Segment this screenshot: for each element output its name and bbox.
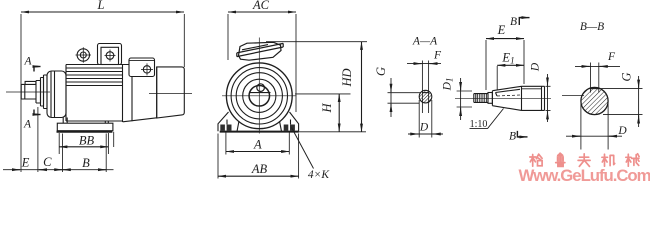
eyebolt xyxy=(76,47,92,62)
bearing cap xyxy=(44,75,48,109)
terminal box 1 xyxy=(98,44,122,65)
svg-text:AB: AB xyxy=(251,162,268,176)
right foot front xyxy=(280,112,299,131)
svg-text:G: G xyxy=(374,67,388,76)
dimension AB extensions xyxy=(218,134,299,179)
body cooling fins xyxy=(66,68,123,86)
thread hatch xyxy=(478,94,487,103)
body joint line xyxy=(122,65,124,123)
extension line foot left xyxy=(62,134,64,173)
dimension AC line xyxy=(228,11,296,13)
arrow B left xyxy=(63,169,71,171)
D extension lines A-A xyxy=(419,100,432,138)
4xK leader xyxy=(292,128,314,169)
A-A keyway extension lines xyxy=(422,61,428,114)
extension line shaft shoulder xyxy=(37,107,39,172)
arrow B right xyxy=(98,169,106,171)
svg-text:L: L xyxy=(97,0,105,12)
D cone extension lines xyxy=(546,86,551,110)
hub circle xyxy=(243,79,276,112)
foot base plate xyxy=(57,123,113,131)
dimension D1 line xyxy=(460,78,462,120)
left foot front xyxy=(218,112,239,131)
svg-text:B: B xyxy=(509,131,516,143)
fan cover joint xyxy=(156,67,158,118)
shaft centerline xyxy=(6,91,50,93)
right foot hole K xyxy=(284,125,295,131)
svg-text:A: A xyxy=(253,137,262,151)
dimension D line A-A xyxy=(408,133,443,135)
motor body outline xyxy=(66,65,129,122)
char ge (tree+each) xyxy=(530,154,542,166)
svg-text:D1: D1 xyxy=(442,78,455,92)
svg-text:D: D xyxy=(617,125,627,137)
B-B keyway flat xyxy=(590,88,600,90)
D extension lines B-B xyxy=(581,103,608,150)
circle ring 3 xyxy=(236,73,282,119)
G arrows B-B xyxy=(638,81,640,88)
arrow at E right outside xyxy=(39,169,47,171)
dimension L line xyxy=(21,11,184,13)
D arrows B-B xyxy=(573,135,581,137)
dimension L extension line right xyxy=(183,14,185,67)
section B mark bottom xyxy=(517,131,527,137)
terminal box 2 xyxy=(129,58,155,77)
svg-text:HD: HD xyxy=(340,68,354,87)
D arrows A-A xyxy=(411,133,418,135)
taper underline xyxy=(470,128,488,130)
dimension E1 line xyxy=(497,64,524,66)
svg-text:H: H xyxy=(320,103,334,114)
svg-text:A: A xyxy=(23,56,32,68)
front view horizontal centerline xyxy=(222,95,297,97)
D1 arrows xyxy=(460,84,462,91)
char xie (apparatus) xyxy=(626,154,639,166)
dimension AC extension right xyxy=(295,14,297,112)
base plate bottom thick edge xyxy=(57,131,113,133)
terminal box front outline xyxy=(239,42,282,60)
svg-text:BB: BB xyxy=(79,134,95,148)
dimension E line xyxy=(486,38,524,40)
D1 extension lines xyxy=(457,91,472,107)
small top circle xyxy=(257,84,265,92)
dimension AC extension left xyxy=(227,14,229,60)
svg-text:C: C xyxy=(43,155,52,169)
keyway chord xyxy=(250,92,271,94)
svg-text:A—A: A—A xyxy=(412,36,438,48)
end bell flange lines xyxy=(51,72,55,118)
HD top extension line xyxy=(266,41,367,43)
A-A shaft section circle xyxy=(419,90,432,103)
section A cut mark top xyxy=(34,67,41,72)
svg-text:Www.GeLufu.Com: Www.GeLufu.Com xyxy=(519,166,650,185)
dimension HD line xyxy=(361,42,363,132)
G extension lines B-B xyxy=(597,89,643,115)
svg-text:E: E xyxy=(497,23,506,37)
left foot web xyxy=(63,118,67,124)
B-B keyway extension lines xyxy=(591,63,599,93)
section A cut mark bottom xyxy=(34,110,41,115)
cone outline xyxy=(492,86,521,110)
motor shaft xyxy=(21,84,36,99)
svg-text:D: D xyxy=(530,62,542,72)
dimension F line B-B xyxy=(575,65,620,67)
E extension lines xyxy=(486,40,524,90)
circle ring 2 xyxy=(231,68,287,124)
left foot hole K xyxy=(220,125,231,131)
E1 extension line xyxy=(496,66,498,90)
terminal box inner line xyxy=(242,45,268,50)
A-A keyway flat xyxy=(422,92,429,94)
svg-text:E1: E1 xyxy=(501,51,514,66)
G extension lines A-A xyxy=(388,93,422,104)
keyseat line on cylinder xyxy=(522,88,542,90)
svg-text:B: B xyxy=(510,16,517,28)
rear joint line xyxy=(131,77,133,122)
front end bell xyxy=(47,71,66,118)
shaft detail centerline xyxy=(455,97,551,99)
svg-text:AC: AC xyxy=(252,0,270,12)
ground baseline extension xyxy=(299,131,366,133)
rear taper bottom xyxy=(123,118,157,122)
terminal box slanted bar xyxy=(237,43,283,56)
F arrows A-A xyxy=(414,63,422,65)
shaft collar step 2 xyxy=(41,78,44,107)
dimension F line A-A xyxy=(407,63,441,65)
shaft collar step 1 xyxy=(36,81,41,104)
B-B section circle xyxy=(581,87,608,114)
dimension AB line xyxy=(218,175,299,177)
B-B centerline tick xyxy=(562,95,584,97)
fan cover xyxy=(157,67,185,118)
char lu (fish+sun) xyxy=(556,153,565,166)
H top extension xyxy=(295,93,351,95)
svg-text:F: F xyxy=(433,50,442,62)
svg-text:F: F xyxy=(607,51,616,63)
dimension E C B line xyxy=(3,169,114,171)
F arrows B-B xyxy=(582,65,590,67)
taper leader xyxy=(488,109,504,129)
dimension H line xyxy=(338,94,340,132)
arrow at E left xyxy=(12,169,20,171)
frame outer circle xyxy=(226,63,292,129)
shaft hole circle xyxy=(249,86,270,107)
shaft key xyxy=(25,81,36,84)
dimension BB extension lines xyxy=(59,133,108,154)
watermark chinese characters (hand-drawn strokes) xyxy=(530,153,639,166)
dimension D line B-B xyxy=(566,135,622,137)
dimension A line xyxy=(226,151,289,153)
arrow C right xyxy=(54,169,62,171)
G arrows A-A xyxy=(390,85,392,92)
plate corner line xyxy=(113,132,115,147)
svg-text:E: E xyxy=(21,156,30,170)
shaft big cylinder xyxy=(522,86,545,110)
svg-text:A: A xyxy=(23,119,32,131)
right foot web xyxy=(105,121,108,124)
dimension G line A-A xyxy=(390,78,392,117)
dimension G line B-B xyxy=(638,76,640,127)
cone keyway xyxy=(496,89,521,96)
dimension D cone line xyxy=(547,74,549,122)
ground baseline thick xyxy=(220,131,299,133)
svg-text:D: D xyxy=(419,122,429,134)
char ji (machine) xyxy=(602,154,615,166)
dimension A extensions xyxy=(226,133,289,155)
front view vertical centerline xyxy=(258,38,260,134)
svg-text:G: G xyxy=(620,72,634,81)
step ring xyxy=(488,93,492,104)
dimension BB line xyxy=(59,146,108,148)
rear centerline xyxy=(149,93,192,95)
section B mark top xyxy=(519,18,529,25)
threaded tip xyxy=(474,94,488,103)
dimension L extension line left xyxy=(20,14,22,172)
char fu (man) xyxy=(578,154,590,167)
extension line foot right xyxy=(105,134,107,173)
svg-text:B—B: B—B xyxy=(580,21,604,33)
D cone arrows xyxy=(547,79,549,86)
svg-text:B: B xyxy=(82,156,90,170)
svg-text:4×K: 4×K xyxy=(308,169,331,181)
